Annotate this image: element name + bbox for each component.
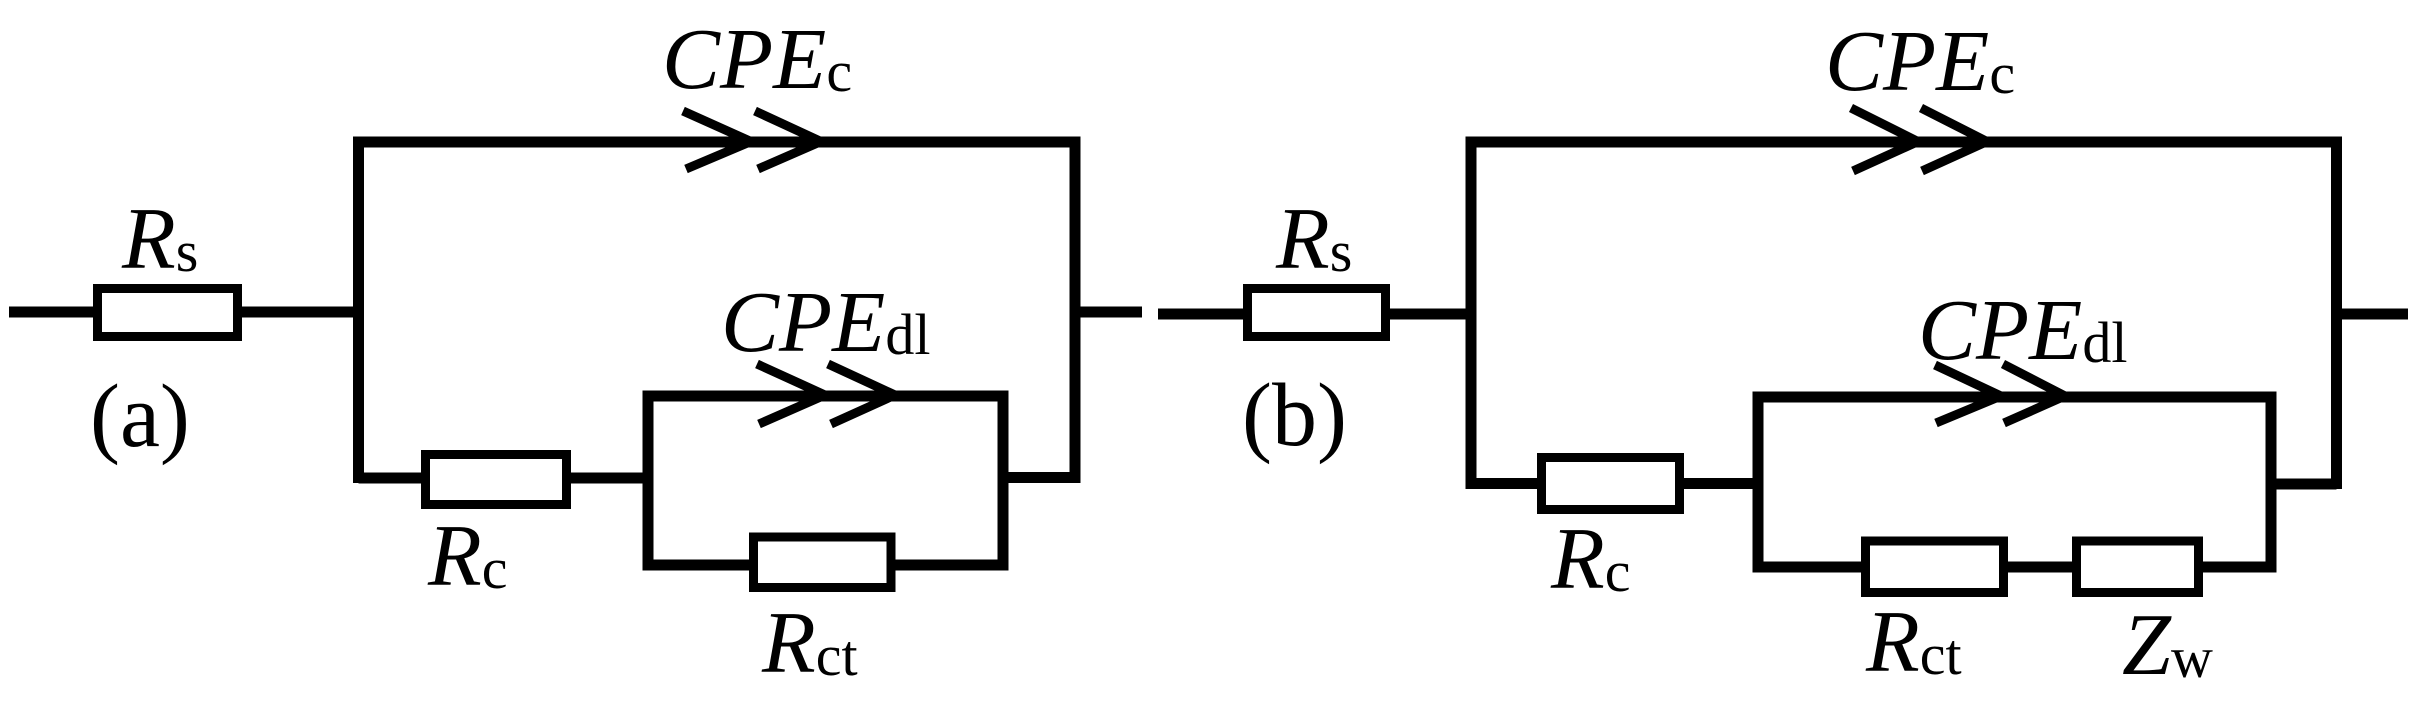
wire: Rc to inner block (b) [1684, 478, 1763, 489]
node A: outer parallel loop (a): left vertical, top branch, right vertical [353, 142, 1081, 483]
svg-text:Rs: Rs [121, 191, 198, 288]
resistor Rs (b) [1248, 289, 1386, 337]
wire: Zw to inner right vertical (b) [2203, 562, 2277, 573]
node B: outer parallel loop (b): left vertical, top branch, right vertical [1466, 142, 2343, 489]
inner parallel loop (b): left vertical, top branch, right vertical [1753, 397, 2277, 573]
svg-text:Zw: Zw [2122, 597, 2213, 694]
wire: inner bottom left segment (a) [643, 560, 755, 571]
wire: Rct to Zw (b) [2008, 562, 2077, 573]
resistor Rct (a) [754, 537, 892, 588]
svg-text:Rct: Rct [1865, 594, 1962, 691]
resistor Rc (a) [426, 455, 567, 505]
CPE Cdl symbol (b) [1935, 364, 2065, 423]
wire: node A to Rc (a) [359, 473, 426, 484]
wire: inner block to outer right vertical (b) [2271, 479, 2337, 490]
CPE Cc symbol (b) [1851, 108, 1987, 171]
wire: Rs to node A (a) [242, 307, 364, 318]
svg-text:CPEdl: CPEdl [721, 273, 930, 370]
inner parallel loop (a): left vertical, top branch, right vertical [643, 396, 1009, 571]
svg-text:Rc: Rc [1550, 511, 1631, 608]
wire: Rc to inner block (a) [571, 473, 653, 484]
svg-text:CPEc: CPEc [662, 10, 852, 107]
wire: inner bottom right segment (a) [891, 560, 1009, 571]
wire: right output lead (b) [2337, 309, 2409, 320]
wire: right output lead (a) [1075, 307, 1142, 318]
svg-text:CPEc: CPEc [1825, 12, 2015, 109]
wire: Rs to node B (b) [1390, 309, 1477, 320]
warburg element Zw (b) [2077, 541, 2199, 593]
resistor Rs (a) [98, 289, 238, 337]
CPE Cdl symbol (a) [757, 364, 895, 424]
wire: inner block to outer right vertical (a) [1003, 472, 1075, 483]
svg-text:Rs: Rs [1275, 191, 1352, 288]
svg-text:CPEdl: CPEdl [1918, 281, 2127, 378]
resistor Rc (b) [1542, 458, 1680, 510]
svg-text:(b): (b) [1242, 366, 1347, 465]
wire: inner bottom left segment (b) [1753, 562, 1867, 573]
resistor Rct (b) [1866, 541, 2004, 593]
wire: left input lead (a) [9, 307, 97, 318]
svg-text:Rct: Rct [761, 595, 858, 692]
wire: left input lead (b) [1158, 309, 1247, 320]
CPE Cc symbol (a) [683, 111, 821, 169]
wire: node B to Rc (b) [1471, 478, 1541, 489]
svg-text:(a): (a) [90, 367, 190, 466]
svg-text:Rc: Rc [427, 508, 508, 605]
